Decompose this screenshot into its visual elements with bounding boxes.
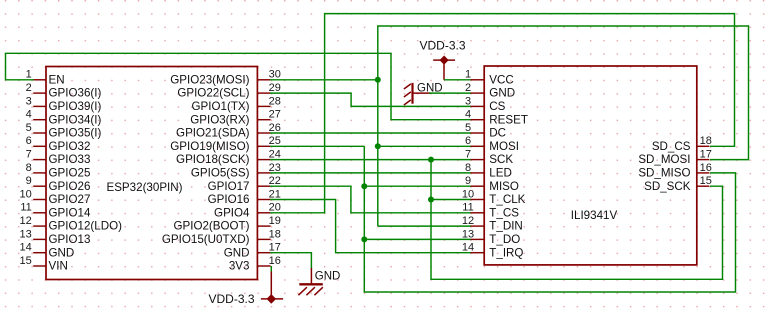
svg-text:EN: EN xyxy=(49,73,65,86)
ESP32 pin 8 GPIO25 xyxy=(26,162,91,180)
ESP32 pin 12 GPIO12(LDO) xyxy=(20,215,123,233)
svg-text:SD_MISO: SD_MISO xyxy=(638,167,690,180)
ILI9341V pin 18 SD_CS xyxy=(652,135,712,153)
svg-text:T_DO: T_DO xyxy=(489,233,520,246)
ILI9341V pin 13 T_DO xyxy=(462,228,520,246)
wire net MOSI: ESP32 pin30 GPIO23(MOSI) to vertical bus x=377.8 xyxy=(270,79,378,81)
svg-text:VDD-3.3: VDD-3.3 xyxy=(208,292,254,306)
wire net EN: ESP32 pin1 EN left, up, across top of ESP32 to ILI9341V RESET pin4 xyxy=(6,53,471,119)
svg-text:GPIO23(MOSI): GPIO23(MOSI) xyxy=(170,73,249,86)
junction MOSI at MOSI pin6 row xyxy=(375,143,381,149)
junction MOSI at pin30 row xyxy=(375,77,381,83)
svg-text:T_CLK: T_CLK xyxy=(489,193,525,206)
ESP32 pin 4 GPIO34(I) xyxy=(26,109,102,127)
svg-text:SD_SCK: SD_SCK xyxy=(644,180,691,193)
svg-text:8: 8 xyxy=(26,162,32,174)
junction SCK at SCK pin7 row xyxy=(428,157,434,163)
svg-text:GPIO19(MISO): GPIO19(MISO) xyxy=(170,140,249,153)
wire net SD_CS: ESP32 pin20 GPIO4 up over the top to ILI9341V pin18 SD_CS xyxy=(270,14,735,213)
ESP32 pin 10 GPIO27 xyxy=(20,188,91,206)
svg-text:3: 3 xyxy=(465,95,471,107)
ESP32 pin 9 GPIO26 xyxy=(26,175,91,193)
svg-text:23: 23 xyxy=(269,162,281,174)
svg-text:1: 1 xyxy=(26,69,32,81)
svg-text:20: 20 xyxy=(269,202,281,214)
ILI9341V pin 12 T_DIN xyxy=(462,215,523,233)
svg-text:GPIO27: GPIO27 xyxy=(49,193,91,206)
svg-text:GPIO3(RX): GPIO3(RX) xyxy=(190,113,249,126)
wire net CS: ESP32 pin29 GPIO22(SCL) jog down to ILI9341V pin3 CS xyxy=(270,93,471,106)
wire net SCK vertical branch x=431 down to bottom, around to SD_SCK pin15 xyxy=(431,160,723,280)
ESP32 pin 5 GPIO35(I) xyxy=(26,122,102,140)
svg-text:T_IRQ: T_IRQ xyxy=(489,246,523,259)
ESP32 pin 17 GND xyxy=(224,242,281,260)
svg-text:GPIO39(I): GPIO39(I) xyxy=(49,100,102,113)
svg-text:GPIO17: GPIO17 xyxy=(208,180,250,193)
svg-text:GPIO13: GPIO13 xyxy=(49,233,91,246)
ESP32 pin 2 GPIO36(I) xyxy=(26,82,102,100)
svg-text:8: 8 xyxy=(465,162,471,174)
ESP32 pin 19 GPIO2(BOOT) xyxy=(173,215,280,233)
ILI9341V pin 3 CS xyxy=(465,95,506,113)
svg-text:VIN: VIN xyxy=(49,260,68,273)
ground symbol GND below ESP32 xyxy=(298,268,340,295)
ILI9341V pin 1 VCC xyxy=(465,69,514,87)
svg-text:3V3: 3V3 xyxy=(229,260,250,273)
svg-text:5: 5 xyxy=(465,122,471,134)
ESP32 pin 7 GPIO33 xyxy=(26,149,91,167)
ILI9341V pin 2 GND xyxy=(465,82,515,100)
svg-text:GPIO25: GPIO25 xyxy=(49,167,91,180)
svg-text:GND: GND xyxy=(49,246,75,259)
ILI9341V pin 17 SD_MOSI xyxy=(638,149,712,167)
power symbol VDD-3.3 below ESP32 xyxy=(208,292,283,306)
svg-text:CS: CS xyxy=(489,100,505,113)
svg-text:9: 9 xyxy=(26,175,32,187)
svg-text:15: 15 xyxy=(20,255,32,267)
svg-text:28: 28 xyxy=(269,95,281,107)
svg-text:2: 2 xyxy=(465,82,471,94)
svg-text:ILI9341V: ILI9341V xyxy=(571,209,618,222)
svg-text:T_CS: T_CS xyxy=(489,206,519,219)
svg-text:GPIO35(I): GPIO35(I) xyxy=(49,127,102,140)
svg-text:GPIO14: GPIO14 xyxy=(49,206,91,219)
svg-text:SCK: SCK xyxy=(489,153,513,166)
ESP32 pin 21 GPIO16 xyxy=(208,188,281,206)
ILI9341V pin 4 RESET xyxy=(465,109,528,127)
svg-text:SD_MOSI: SD_MOSI xyxy=(638,153,690,166)
ESP32 pin 22 GPIO17 xyxy=(208,175,281,193)
svg-text:16: 16 xyxy=(269,255,281,267)
svg-text:GPIO12(LDO): GPIO12(LDO) xyxy=(49,220,123,233)
svg-text:SD_CS: SD_CS xyxy=(652,140,691,153)
svg-text:GPIO32: GPIO32 xyxy=(49,140,91,153)
wire net MOSI vertical: top branch to SD_MOSI, down to MOSI pin6 and T_DIN pin12 xyxy=(378,26,749,226)
svg-text:GPIO2(BOOT): GPIO2(BOOT) xyxy=(173,220,249,233)
svg-text:17: 17 xyxy=(269,242,281,254)
ESP32 pin 23 GPIO5(SS) xyxy=(191,162,281,180)
svg-text:GND: GND xyxy=(489,87,515,100)
wire GND: ESP32 pin17 GND to ground symbol xyxy=(270,253,311,269)
power symbol VDD-3.3 above ILI9341V feeding VCC pin1 xyxy=(419,39,465,80)
svg-text:12: 12 xyxy=(462,215,474,227)
svg-text:6: 6 xyxy=(465,135,471,147)
svg-text:GPIO34(I): GPIO34(I) xyxy=(49,113,102,126)
svg-text:18: 18 xyxy=(700,135,712,147)
ESP32 pin 25 GPIO19(MISO) xyxy=(170,135,281,153)
wire net SCK branch to ILI9341V pin10 T_CLK xyxy=(431,199,471,201)
svg-text:5: 5 xyxy=(26,122,32,134)
svg-text:T_DIN: T_DIN xyxy=(489,220,523,233)
svg-text:18: 18 xyxy=(269,228,281,240)
svg-text:6: 6 xyxy=(26,135,32,147)
ESP32 pin 28 GPIO1(TX) xyxy=(192,95,281,113)
svg-text:LED: LED xyxy=(489,167,512,180)
svg-text:MOSI: MOSI xyxy=(489,140,519,153)
ESP32 pin 15 VIN xyxy=(20,255,68,273)
svg-text:10: 10 xyxy=(462,188,474,200)
svg-text:GPIO15(U0TXD): GPIO15(U0TXD) xyxy=(162,233,250,246)
svg-text:VDD-3.3: VDD-3.3 xyxy=(419,39,465,53)
ILI9341V pin 14 T_IRQ xyxy=(462,242,524,260)
ILI9341V pin 7 SCK xyxy=(465,149,513,167)
wire net MISO branch to ILI9341V pin13 T_DO xyxy=(364,238,471,240)
svg-text:14: 14 xyxy=(20,242,32,254)
svg-text:VCC: VCC xyxy=(489,73,513,86)
svg-text:3: 3 xyxy=(26,95,32,107)
svg-text:GPIO1(TX): GPIO1(TX) xyxy=(192,100,250,113)
ESP32 pin 14 GND xyxy=(20,242,75,260)
svg-text:11: 11 xyxy=(462,202,473,214)
ESP32 pin 1 EN xyxy=(26,69,65,87)
svg-text:27: 27 xyxy=(269,109,281,121)
ILI9341V pin 9 MISO xyxy=(465,175,519,193)
svg-text:9: 9 xyxy=(465,175,471,187)
junction MISO at T_DO pin13 row xyxy=(361,236,367,242)
svg-text:GPIO4: GPIO4 xyxy=(214,206,250,219)
ILI9341V pin 8 LED xyxy=(465,162,512,180)
wire VDD-3.3 to ILI9341V pin1 VCC xyxy=(444,79,471,81)
junction SCK at T_CLK pin10 row xyxy=(428,197,434,203)
svg-text:12: 12 xyxy=(20,215,32,227)
ESP32 pin 26 GPIO21(SDA) xyxy=(176,122,281,140)
svg-text:25: 25 xyxy=(269,135,281,147)
wire net LED: ESP32 pin23 GPIO5(SS) straight to ILI9341V pin8 LED xyxy=(270,172,471,174)
svg-text:GPIO22(SCL): GPIO22(SCL) xyxy=(177,87,249,100)
svg-text:GPIO16: GPIO16 xyxy=(208,193,250,206)
ILI9341V pin 5 DC xyxy=(465,122,506,140)
svg-text:1: 1 xyxy=(465,69,471,81)
svg-text:GPIO21(SDA): GPIO21(SDA) xyxy=(176,127,250,140)
svg-text:11: 11 xyxy=(20,202,31,214)
svg-text:GPIO33: GPIO33 xyxy=(49,153,91,166)
svg-text:GND: GND xyxy=(315,270,341,282)
ESP32 pin 13 GPIO13 xyxy=(20,228,91,246)
wire net MISO branch to ILI9341V pin9 MISO xyxy=(364,185,471,187)
svg-text:13: 13 xyxy=(20,228,32,240)
svg-text:GPIO18(SCK): GPIO18(SCK) xyxy=(176,153,250,166)
svg-text:7: 7 xyxy=(465,149,471,161)
svg-text:26: 26 xyxy=(269,122,281,134)
ESP32 pin 29 GPIO22(SCL) xyxy=(177,82,281,100)
svg-text:15: 15 xyxy=(700,175,712,187)
ESP32 pin 24 GPIO18(SCK) xyxy=(176,149,281,167)
svg-text:MISO: MISO xyxy=(489,180,519,193)
ESP32 pin 18 GPIO15(U0TXD) xyxy=(162,228,281,246)
svg-text:29: 29 xyxy=(269,82,281,94)
svg-text:4: 4 xyxy=(26,109,32,121)
svg-text:ESP32(30PIN): ESP32(30PIN) xyxy=(106,181,182,194)
ILI9341V pin 15 SD_SCK xyxy=(644,175,712,193)
ESP32 pin 20 GPIO4 xyxy=(214,202,281,220)
svg-text:GPIO26: GPIO26 xyxy=(49,180,91,193)
ESP32 pin 6 GPIO32 xyxy=(26,135,91,153)
svg-text:19: 19 xyxy=(269,215,281,227)
svg-text:DC: DC xyxy=(489,127,506,140)
svg-text:13: 13 xyxy=(462,228,474,240)
svg-text:7: 7 xyxy=(26,149,32,161)
wire net MOSI branch to ILI9341V pin12 T_DIN xyxy=(378,225,471,227)
wire net T_CS: ESP32 pin22 GPIO17 jog down to ILI9341V pin11 T_CS xyxy=(270,186,471,213)
ILI9341V pin 10 T_CLK xyxy=(462,188,526,206)
ILI9341V display module symbol body xyxy=(484,66,697,265)
ESP32 pin 3 GPIO39(I) xyxy=(26,95,102,113)
wire net MISO: ESP32 pin25 GPIO19(MISO) right then down x=364.3 to bottom, around to SD_MISO xyxy=(270,145,364,147)
svg-text:24: 24 xyxy=(269,149,281,161)
svg-text:4: 4 xyxy=(465,109,471,121)
svg-text:22: 22 xyxy=(269,175,281,187)
wire net MOSI branch to ILI9341V pin6 MOSI xyxy=(378,145,471,147)
junction MISO at MISO pin9 row xyxy=(361,183,367,189)
svg-text:2: 2 xyxy=(26,82,32,94)
ILI9341V pin 6 MOSI xyxy=(465,135,519,153)
svg-text:10: 10 xyxy=(20,188,32,200)
wire GND symbol to ILI9341V pin2 GND xyxy=(429,92,471,94)
ESP32 pin 16 3V3 xyxy=(229,255,281,273)
svg-text:30: 30 xyxy=(269,69,281,81)
ESP32 pin 11 GPIO14 xyxy=(20,202,91,220)
svg-text:14: 14 xyxy=(462,242,474,254)
svg-text:RESET: RESET xyxy=(489,113,528,126)
wire 3V3: ESP32 pin16 3V3 down to VDD-3.3 power symbol xyxy=(270,266,272,272)
svg-text:GPIO5(SS): GPIO5(SS) xyxy=(191,167,250,180)
svg-text:17: 17 xyxy=(700,149,712,161)
svg-text:21: 21 xyxy=(269,188,281,200)
ground symbol GND left of ILI9341V pin2 xyxy=(404,82,443,105)
ILI9341V pin 11 T_CS xyxy=(462,202,519,220)
svg-text:GPIO36(I): GPIO36(I) xyxy=(49,87,102,100)
ESP32 pin 30 GPIO23(MOSI) xyxy=(170,69,281,87)
wire net T_IRQ: ESP32 pin21 GPIO16 jog down to ILI9341V pin14 T_IRQ xyxy=(270,200,471,253)
ESP32 pin 27 GPIO3(RX) xyxy=(190,109,281,127)
ILI9341V pin 16 SD_MISO xyxy=(638,162,712,180)
svg-text:16: 16 xyxy=(700,162,712,174)
ESP32 module symbol body ESP32(30PIN) xyxy=(46,67,257,280)
wire net DC: ESP32 pin26 GPIO21(SDA) straight to ILI9341V pin5 DC xyxy=(270,132,471,134)
wire net SCK: ESP32 pin24 GPIO18(SCK) straight to ILI9341V pin7 SCK xyxy=(270,159,471,161)
svg-text:GND: GND xyxy=(224,246,250,259)
